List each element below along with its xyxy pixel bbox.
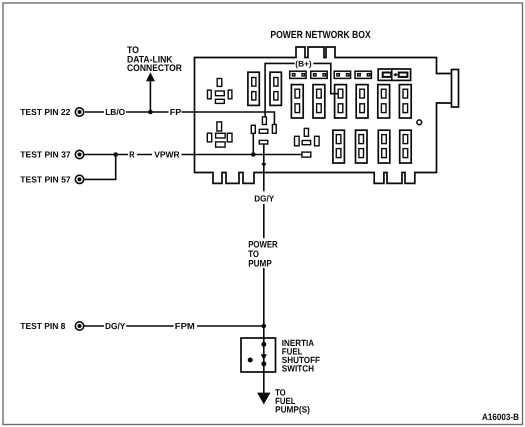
- junction pin57 on VPWR wire: [113, 152, 118, 157]
- fuse holder row2 #2: [356, 130, 368, 163]
- test pin 8 terminal: [75, 322, 83, 330]
- svg-text:PUMP(S): PUMP(S): [275, 404, 310, 414]
- test pin 57 terminal: [75, 175, 83, 183]
- mini fuse F3: [334, 71, 350, 78]
- svg-text:(B+): (B+): [295, 60, 312, 69]
- test pin 37 terminal: [75, 150, 83, 158]
- wire to data-link connector: [149, 81, 151, 112]
- mounting hole: [417, 120, 422, 125]
- svg-text:TEST PIN 37: TEST PIN 37: [20, 150, 70, 160]
- label TO DATA-LINK CONNECTOR: [127, 45, 182, 74]
- svg-text:VPWR: VPWR: [154, 150, 180, 160]
- svg-text:FPM: FPM: [175, 321, 195, 331]
- fuel pump relay pad A (B+ in): [262, 117, 266, 125]
- arrow to data-link connector: [146, 72, 155, 81]
- svg-text:PUMP: PUMP: [248, 257, 272, 268]
- relay footprint cluster C4: [295, 128, 320, 145]
- power network box outline: [195, 47, 452, 183]
- switch contact dot bottom: [261, 361, 266, 366]
- wire B+ right segment: [313, 63, 338, 93]
- fuse holder row1 #2: [270, 72, 281, 105]
- fuse holder row2 #1: [333, 130, 345, 163]
- svg-text:TEST PIN 22: TEST PIN 22: [20, 107, 70, 117]
- fuse holder row1 #1: [248, 72, 259, 105]
- fuel pump relay pad D (VPWR): [251, 125, 255, 133]
- svg-text:POWER NETWORK BOX: POWER NETWORK BOX: [270, 30, 370, 41]
- fuse holder row1b #4: [356, 85, 368, 118]
- wire through switch: [263, 338, 265, 372]
- fuse holder row2 #4: [400, 130, 412, 163]
- label TO FUEL PUMP(S): [275, 387, 310, 414]
- mini fuse F2: [311, 71, 327, 78]
- test pin 22 terminal: [75, 108, 83, 116]
- wire DG/Y - FPM: [84, 325, 264, 327]
- wire relay pad D down to VPWR: [252, 133, 254, 154]
- wire R - VPWR: [84, 154, 302, 156]
- fuse holder row1b #6: [399, 85, 411, 118]
- svg-text:A16003-B: A16003-B: [482, 412, 519, 422]
- connector tab on right side of box: [452, 70, 459, 108]
- switch side contact dot: [248, 358, 253, 363]
- mini fuse F4: [355, 71, 371, 78]
- mini fuse F1: [290, 71, 306, 78]
- junction relay D on VPWR wire: [251, 152, 256, 157]
- fuse holder row1b #1: [291, 85, 303, 118]
- circuit breaker: [378, 69, 410, 80]
- svg-text:LB/O: LB/O: [105, 107, 125, 117]
- arrow to fuel pump: [257, 393, 270, 405]
- wire LB/O - FP: [85, 112, 275, 125]
- fuse holder row2 #3: [378, 130, 390, 163]
- relay footprint cluster C1: [208, 79, 232, 104]
- wire B+ left segment: [265, 63, 295, 117]
- wire pin 57 up to VPWR: [84, 155, 116, 180]
- junction on FP wire: [148, 110, 153, 115]
- fuel pump relay pad E (DG/Y out): [259, 140, 268, 144]
- VPWR terminal pad of C4: [302, 152, 311, 157]
- svg-text:FP: FP: [170, 107, 182, 117]
- fuel pump relay pad C (FP): [272, 125, 276, 134]
- fuse holder row1b #3: [335, 85, 347, 118]
- label POWER TO PUMP: [248, 239, 278, 269]
- label INERTIA FUEL SHUTOFF SWITCH: [282, 338, 321, 374]
- svg-text:TEST PIN 57: TEST PIN 57: [20, 174, 70, 184]
- svg-text:R: R: [129, 150, 135, 160]
- svg-text:TEST PIN 8: TEST PIN 8: [20, 321, 65, 331]
- fuse holder row1b #5: [378, 85, 390, 118]
- arrowhead on DG/Y wire inside box: [261, 163, 266, 167]
- wire to fuel pump: [263, 372, 265, 393]
- svg-text:DG/Y: DG/Y: [105, 321, 125, 331]
- switch arrowhead: [261, 354, 267, 360]
- inertia fuel shutoff switch box: [241, 338, 276, 372]
- relay footprint cluster C2: [207, 122, 232, 147]
- junction FPM on DG/Y wire: [262, 324, 267, 329]
- fuel pump relay pad B (center): [259, 129, 268, 133]
- switch contact dot top: [261, 342, 266, 347]
- svg-text:DG/Y: DG/Y: [254, 194, 274, 204]
- svg-text:SWITCH: SWITCH: [282, 364, 314, 374]
- svg-text:CONNECTOR: CONNECTOR: [127, 63, 182, 74]
- fuse holder row1b #2: [313, 85, 325, 118]
- wire DG/Y down from relay pad E: [263, 144, 265, 338]
